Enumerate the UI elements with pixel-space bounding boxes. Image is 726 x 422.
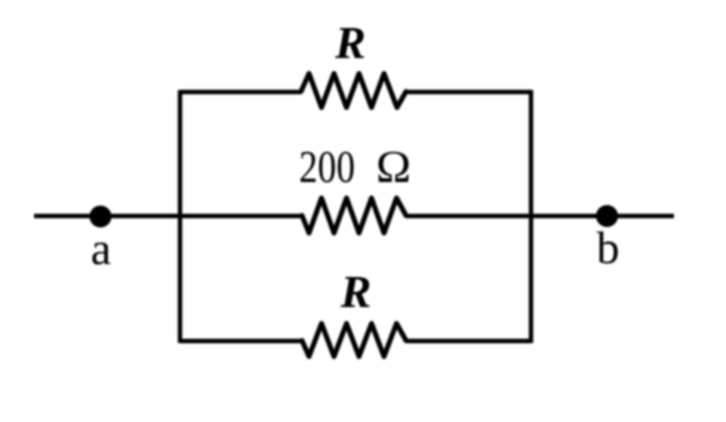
svg-text:R: R [334,17,366,68]
svg-text:Ω: Ω [376,141,411,192]
wire: top branch right segment [406,90,531,94]
node a label [91,223,111,274]
resistor 200 ohm (middle branch) zigzag [302,198,406,233]
resistor R (bottom branch) zigzag [302,324,406,357]
wire: left vertical bus joining three branches [178,90,182,343]
wire: bottom branch right segment [406,339,531,343]
svg-text:a: a [91,223,111,274]
wire: bottom branch left segment [180,339,302,343]
wire: middle horizontal, node a to left junction [34,214,302,218]
label R (top resistor value) [334,17,366,68]
node b label [597,222,620,273]
label 200 ohm (middle resistor value) [299,141,411,192]
node a junction dot [90,206,112,228]
label R (bottom resistor value) [340,266,372,317]
wire: top branch left segment [180,90,301,94]
svg-text:b: b [597,222,620,273]
resistor R (top branch) zigzag [301,74,406,108]
svg-text:R: R [340,266,372,317]
node b junction dot [596,205,618,227]
wire: middle horizontal, right junction to node b terminal [406,214,674,218]
wire: right vertical bus joining three branches [529,90,533,343]
svg-text:200: 200 [299,141,355,192]
